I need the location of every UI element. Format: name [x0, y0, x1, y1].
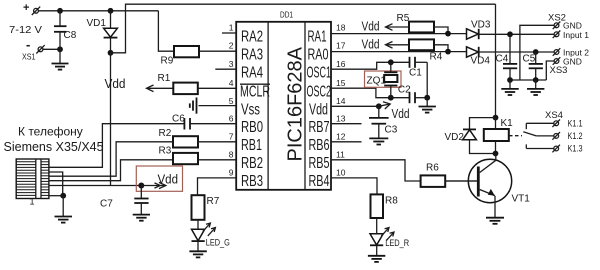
junction plus/C8: [57, 8, 63, 14]
connector XS4: [526, 110, 582, 154]
svg-text:Input 1: Input 1: [563, 30, 589, 40]
svg-text:OSC1: OSC1: [307, 65, 332, 82]
svg-text:Vdd: Vdd: [158, 171, 179, 186]
wire rail to relay: [495, 4, 497, 117]
wire VD1 cathode down to Vdd node: [110, 53, 112, 186]
wire plus rail: [38, 10, 158, 12]
wire connector to Vdd node: [49, 185, 141, 187]
wire connector to ground riser: [49, 172, 63, 196]
svg-text:RB7: RB7: [309, 119, 330, 136]
ground at Vss pin 5: [190, 98, 197, 114]
svg-text:R3: R3: [159, 146, 172, 157]
svg-text:RA4: RA4: [241, 65, 263, 82]
resistor R5: [386, 13, 449, 34]
svg-text:Vdd: Vdd: [309, 102, 328, 119]
relay K1 coil: [484, 118, 513, 154]
svg-text:C3: C3: [385, 125, 398, 136]
svg-text:Vdd: Vdd: [362, 37, 380, 51]
ground LED_R: [368, 256, 385, 262]
capacitor C6: [172, 113, 236, 129]
junction plus/VD1: [108, 8, 114, 14]
junction VD1 cathode: [108, 50, 114, 56]
svg-text:Siemens X35/X45: Siemens X35/X45: [4, 140, 104, 154]
svg-text:9: 9: [229, 168, 234, 178]
IC pin 3 RA4: [215, 59, 263, 82]
svg-text:ZQ1: ZQ1: [367, 76, 387, 87]
ground C3: [369, 138, 388, 144]
connector XS3: [550, 48, 590, 77]
svg-text:RA1: RA1: [308, 28, 327, 45]
svg-text:RB2: RB2: [241, 155, 263, 172]
phone connector X1: [16, 159, 49, 207]
svg-text:XS1: XS1: [22, 51, 36, 61]
diode VD1: [87, 11, 118, 53]
wire connector to ground: [49, 195, 64, 197]
svg-text:15: 15: [336, 78, 346, 88]
capacitor C2: [398, 85, 427, 104]
svg-text:11: 11: [336, 150, 345, 160]
resistor R4: [386, 39, 449, 62]
svg-text:R6: R6: [426, 163, 439, 174]
svg-text:4: 4: [229, 78, 234, 88]
capacitor C3: [369, 106, 398, 138]
arrow Vdd at pin14: [379, 102, 410, 121]
IC pin 18 RA1: [308, 23, 467, 46]
wire minus: [43, 48, 60, 50]
svg-text:12: 12: [336, 132, 346, 142]
svg-text:VD1: VD1: [87, 18, 107, 29]
IC pin 12 RB6: [309, 132, 362, 155]
svg-text:16: 16: [336, 59, 346, 69]
IC pin 9 RB3: [229, 168, 263, 191]
ground LED_G: [189, 251, 206, 257]
svg-text:2: 2: [229, 41, 234, 51]
junction R4/RA0: [445, 49, 451, 55]
IC pin 11 RB5: [309, 150, 421, 182]
diode VD2: [445, 118, 496, 154]
svg-text:RA2: RA2: [241, 28, 263, 45]
svg-text:K1: K1: [501, 118, 514, 129]
wire gnd bus: [510, 79, 546, 81]
svg-text:K1.1: K1.1: [568, 118, 583, 128]
svg-text:13: 13: [336, 113, 346, 123]
wire XS2 GND to gnd bus: [520, 25, 554, 80]
wire connector to R3 / RB2: [49, 160, 173, 181]
wire RB3 to R7: [198, 178, 237, 195]
svg-text:LED_G: LED_G: [206, 237, 230, 247]
wire Vdd top rail: [111, 4, 496, 53]
IC pin 2 RA3: [229, 41, 263, 64]
svg-text:DD1: DD1: [280, 10, 293, 20]
IC pin 1 RA2: [222, 23, 263, 46]
capacitor C1: [409, 57, 427, 79]
ground C5: [527, 80, 544, 95]
crystal ZQ1: [367, 62, 398, 97]
IC pin 6 RB0: [229, 113, 264, 136]
svg-text:MCLR: MCLR: [240, 84, 270, 101]
wire connector to C6 / RB0: [49, 124, 185, 168]
svg-text:XS4: XS4: [545, 110, 563, 121]
arrow Vdd node: [141, 182, 166, 188]
capacitor C8: [54, 11, 77, 50]
resistor R1: [147, 73, 237, 94]
diode VD3: [467, 20, 555, 40]
svg-text:R2: R2: [159, 128, 172, 139]
IC pin 16 OSC1: [307, 59, 410, 82]
resistor R3: [159, 146, 237, 165]
diode VD4: [467, 47, 555, 67]
svg-text:17: 17: [336, 41, 346, 51]
junction crystal top: [388, 59, 394, 65]
ground C1 C2: [419, 98, 436, 113]
svg-text:C5: C5: [523, 54, 536, 65]
svg-text:1: 1: [30, 197, 35, 207]
svg-text:1: 1: [229, 23, 234, 33]
junction minus: [57, 46, 63, 52]
junction crystal bottom: [388, 95, 394, 101]
junction C4 top: [507, 31, 513, 37]
svg-text:Vdd: Vdd: [392, 107, 410, 121]
IC pin 7 RB1: [229, 132, 262, 155]
connector XS2: [548, 13, 589, 41]
svg-text:RA0: RA0: [308, 47, 329, 64]
svg-text:LED_R: LED_R: [385, 238, 409, 248]
svg-text:K1.3: K1.3: [568, 144, 583, 154]
svg-text:GND: GND: [563, 21, 582, 31]
svg-text:+: +: [23, 2, 29, 14]
connector XS1 plus terminal: [23, 2, 40, 15]
ground C7: [133, 215, 150, 221]
IC pin 17 RA0: [308, 41, 467, 64]
capacitor C5: [523, 52, 543, 80]
svg-text:VD4: VD4: [471, 56, 491, 67]
IC pin 8 RB2: [229, 150, 263, 173]
svg-text:Vdd: Vdd: [362, 20, 380, 34]
svg-text:VD2: VD2: [445, 132, 465, 143]
svg-text:RB1: RB1: [241, 137, 262, 154]
LED LED_R: [370, 228, 410, 256]
svg-text:C2: C2: [398, 85, 411, 96]
annotation box ZQ1: [365, 71, 402, 87]
IC pin 10 RB4: [309, 168, 378, 195]
svg-text:OSC2: OSC2: [307, 84, 332, 101]
junction connector ground: [60, 193, 66, 199]
svg-text:R5: R5: [397, 13, 410, 24]
svg-text:C8: C8: [64, 30, 77, 41]
svg-text:RB4: RB4: [309, 173, 330, 190]
junction Vdd node: [138, 183, 144, 189]
capacitor C4: [496, 34, 518, 80]
svg-text:3: 3: [229, 59, 234, 69]
svg-text:R7: R7: [207, 196, 220, 207]
svg-text:RB3: RB3: [241, 173, 263, 190]
junction relay bottom / collector: [493, 151, 499, 157]
IC pin 4 MCLR: [229, 78, 270, 101]
svg-text:Vdd: Vdd: [105, 76, 126, 91]
junction C4 bottom: [507, 77, 513, 83]
IC pin 15 OSC2: [307, 78, 410, 101]
junction R5/RA1: [445, 31, 451, 37]
junction C5 top: [533, 49, 539, 55]
svg-text:R8: R8: [385, 196, 398, 207]
svg-text:RB6: RB6: [309, 137, 330, 154]
junction C2 ground: [424, 95, 430, 101]
capacitor C7: [100, 186, 149, 215]
resistor R6: [421, 163, 477, 187]
svg-text:RB0: RB0: [241, 119, 263, 136]
IC pin 14 Vdd: [309, 96, 379, 119]
svg-text:К телефону: К телефону: [18, 125, 83, 139]
junction relay top: [493, 115, 499, 121]
wire connector to R2 / RB1: [49, 142, 173, 176]
svg-text:-: -: [26, 37, 30, 52]
svg-text:7: 7: [229, 132, 234, 142]
transistor VT1: [445, 154, 530, 218]
junction C5 bottom: [533, 77, 539, 83]
junction pin14: [376, 103, 382, 109]
svg-text:VT1: VT1: [512, 194, 531, 205]
connector XS1 minus terminal: [26, 37, 45, 54]
svg-text:K1.2: K1.2: [568, 131, 583, 141]
resistor R8: [371, 194, 399, 233]
svg-text:XS3: XS3: [550, 65, 568, 76]
svg-text:5: 5: [229, 96, 234, 106]
svg-text:10: 10: [336, 168, 346, 178]
svg-text:VD3: VD3: [471, 20, 491, 31]
resistor R9: [158, 11, 236, 67]
ground XS1: [52, 49, 69, 69]
svg-text:C7: C7: [100, 199, 113, 210]
svg-text:RA3: RA3: [241, 47, 263, 64]
svg-text:8: 8: [229, 150, 234, 160]
svg-text:RB5: RB5: [309, 155, 330, 172]
svg-text:C6: C6: [172, 113, 185, 124]
ground connector: [55, 196, 73, 223]
wire C1 to C2: [426, 62, 428, 97]
svg-text:PIC16F628A: PIC16F628A: [285, 46, 307, 161]
LED LED_G: [192, 223, 230, 251]
resistor R7: [192, 195, 220, 229]
resistor R2: [159, 128, 237, 148]
svg-text:14: 14: [336, 96, 346, 106]
svg-text:R4: R4: [430, 52, 443, 63]
svg-text:R1: R1: [158, 73, 171, 84]
svg-text:6: 6: [229, 113, 234, 123]
svg-text:18: 18: [336, 23, 346, 33]
svg-text:C4: C4: [496, 54, 509, 65]
IC DD1 body: [236, 10, 331, 190]
svg-text:7-12 V: 7-12 V: [9, 25, 42, 36]
svg-text:Vss: Vss: [241, 102, 260, 119]
ground VT1: [486, 218, 504, 224]
IC pin 13 RB7: [309, 113, 362, 136]
annotation box Vdd: [136, 166, 182, 191]
wire XS3 GND to gnd bus: [546, 61, 554, 80]
svg-text:R9: R9: [161, 56, 174, 67]
ground C4: [501, 80, 518, 95]
svg-text:C1: C1: [409, 67, 422, 78]
relay contact switch: [509, 123, 536, 148]
IC pin 5 Vss: [199, 96, 261, 119]
